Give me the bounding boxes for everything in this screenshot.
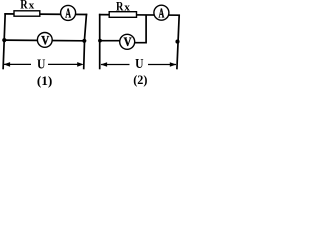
resistor Rx (circuit 2) bbox=[109, 12, 136, 18]
svg-text:U: U bbox=[135, 57, 143, 72]
ammeter A (circuit 2) bbox=[154, 5, 169, 20]
svg-text:x: x bbox=[124, 1, 130, 13]
svg-text:U: U bbox=[37, 58, 45, 73]
wire: circuit 2 voltmeter branch right and riser to top bbox=[135, 15, 147, 43]
svg-text:(1): (1) bbox=[37, 73, 53, 88]
circuit 2 bbox=[99, 14, 180, 70]
wire: circuit 1 top horizontal bbox=[4, 13, 87, 16]
svg-text:A: A bbox=[159, 5, 165, 20]
wire: circuit 2 left vertical bbox=[99, 14, 101, 70]
junction dot right (circuit 2) bbox=[175, 40, 179, 44]
arrowhead left (circuit 2) bbox=[101, 62, 108, 67]
resistor Rx (circuit 1) bbox=[14, 11, 40, 16]
junction dot right (circuit 1) bbox=[82, 39, 86, 43]
arrowhead right (circuit 2) bbox=[170, 62, 177, 67]
wire: circuit 1 voltmeter branch bbox=[4, 39, 84, 42]
wire: circuit 2 voltmeter branch left bbox=[100, 40, 120, 42]
arrowhead left (circuit 1) bbox=[4, 62, 11, 67]
junction dot left (circuit 2) bbox=[98, 39, 102, 43]
svg-text:x: x bbox=[29, 0, 35, 12]
svg-text:V: V bbox=[124, 34, 133, 49]
wire: circuit 1 right vertical bbox=[84, 14, 87, 70]
dimension line U (circuit 2) bbox=[101, 64, 176, 66]
junction dot left (circuit 1) bbox=[2, 38, 6, 42]
circuit 1 bbox=[3, 13, 87, 69]
svg-text:R: R bbox=[116, 0, 124, 13]
voltmeter V (circuit 2) bbox=[120, 34, 135, 49]
ammeter A (circuit 1) bbox=[61, 5, 76, 20]
wire: circuit 2 right vertical bbox=[177, 15, 179, 70]
voltmeter V (circuit 1) bbox=[37, 33, 52, 48]
svg-text:R: R bbox=[20, 0, 28, 12]
wire: circuit 1 left vertical bbox=[3, 13, 5, 69]
svg-text:A: A bbox=[65, 6, 71, 21]
svg-text:V: V bbox=[41, 32, 50, 47]
dimension line U (circuit 1) bbox=[4, 63, 78, 65]
wire: circuit 2 top horizontal bbox=[99, 14, 180, 17]
svg-text:(2): (2) bbox=[133, 72, 147, 87]
arrowhead right (circuit 1) bbox=[77, 62, 84, 67]
